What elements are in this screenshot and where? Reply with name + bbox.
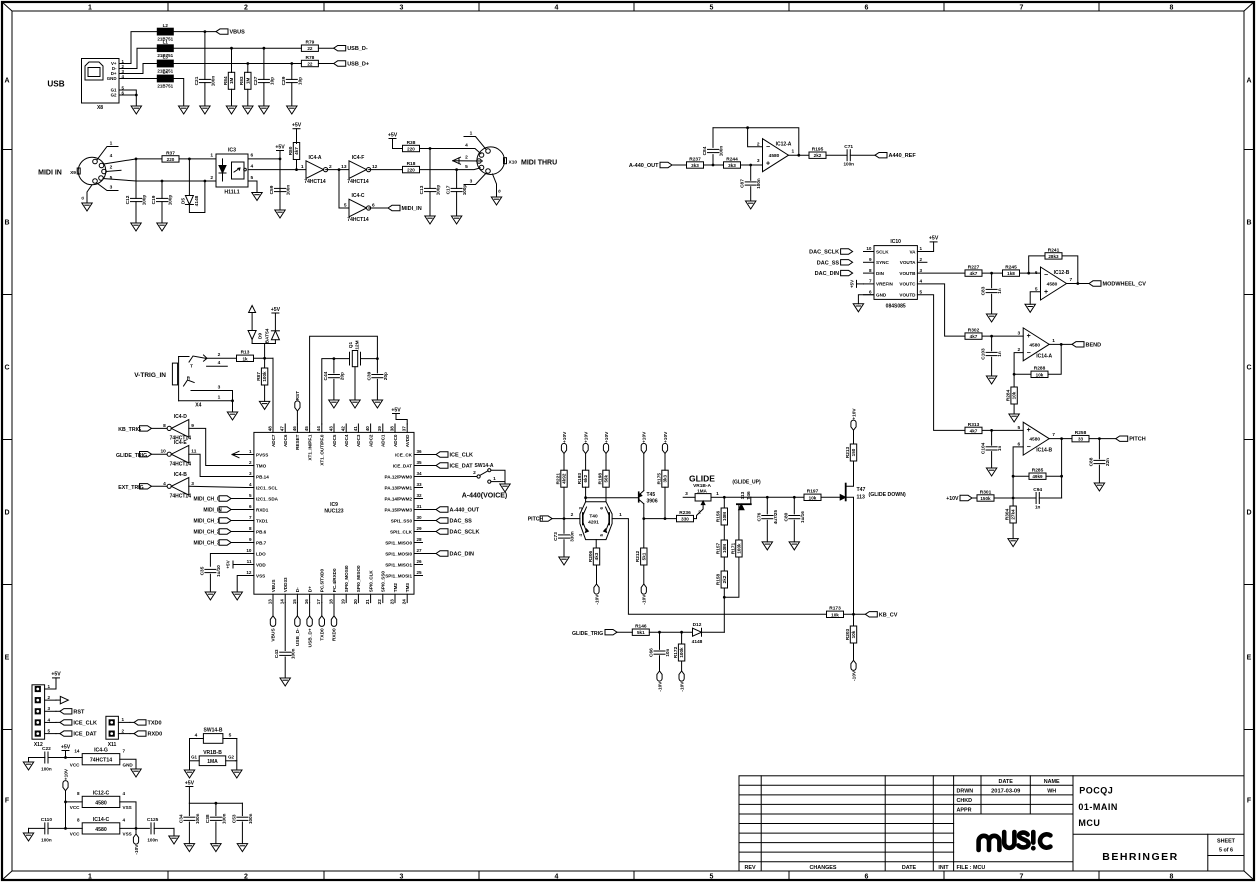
wire xyxy=(1060,439,1063,498)
resistor R304 xyxy=(1012,498,1014,506)
wire xyxy=(136,180,216,183)
svg-text:8: 8 xyxy=(77,818,80,823)
svg-text:BEHRINGER: BEHRINGER xyxy=(1102,851,1179,863)
svg-text:R221: R221 xyxy=(555,473,561,485)
svg-text:4580: 4580 xyxy=(95,801,107,807)
svg-text:D: D xyxy=(4,510,9,517)
svg-text:X9: X9 xyxy=(70,170,76,176)
svg-text:30: 30 xyxy=(417,515,423,520)
svg-text:PA.14/PWM2: PA.14/PWM2 xyxy=(385,496,413,501)
svg-text:5: 5 xyxy=(48,728,51,733)
ground xyxy=(853,304,863,312)
svg-text:T45: T45 xyxy=(647,492,656,498)
svg-text:5: 5 xyxy=(344,203,347,209)
wire xyxy=(826,154,847,156)
node A-440_OUT xyxy=(436,507,480,514)
wire xyxy=(173,79,183,107)
wire xyxy=(423,520,437,522)
svg-text:6: 6 xyxy=(249,504,252,509)
wire xyxy=(552,517,580,520)
wire xyxy=(231,509,245,511)
svg-text:SPI1_MISO0: SPI1_MISO0 xyxy=(385,540,412,545)
DAC IC10 084S085 xyxy=(864,239,923,309)
capacitor C35 xyxy=(199,565,221,577)
svg-text:+: + xyxy=(1027,333,1031,340)
node VBUS xyxy=(270,616,276,642)
svg-text:H11L1: H11L1 xyxy=(224,190,239,196)
ground xyxy=(500,484,510,492)
resistor R18 xyxy=(403,161,420,173)
svg-text:+: + xyxy=(1027,427,1031,434)
svg-text:ADC1: ADC1 xyxy=(381,434,386,447)
svg-text:1: 1 xyxy=(493,476,496,482)
+5V power xyxy=(292,123,302,129)
svg-text:100n: 100n xyxy=(843,162,854,167)
wire xyxy=(210,554,245,567)
svg-text:KB_CV: KB_CV xyxy=(879,612,898,618)
wire xyxy=(231,399,234,412)
svg-text:C59: C59 xyxy=(269,185,275,194)
svg-text:SPI1_CLK: SPI1_CLK xyxy=(390,529,413,534)
svg-text:−: − xyxy=(1027,444,1031,451)
svg-text:3: 3 xyxy=(1018,331,1021,337)
ground xyxy=(350,400,360,408)
ground xyxy=(986,468,996,476)
ground xyxy=(205,592,215,600)
svg-text:100k: 100k xyxy=(679,647,684,658)
capacitor C104 xyxy=(991,430,993,445)
node +10V xyxy=(946,495,972,502)
svg-text:5k1: 5k1 xyxy=(637,630,645,635)
svg-text:8: 8 xyxy=(869,268,872,273)
svg-text:2: 2 xyxy=(473,470,476,476)
node 01-MAIN title xyxy=(1078,802,1118,812)
capacitor C87 xyxy=(750,165,752,180)
wire xyxy=(644,517,677,520)
svg-text:36: 36 xyxy=(417,449,423,454)
svg-text:22n: 22n xyxy=(1105,458,1110,466)
svg-text:2: 2 xyxy=(210,175,213,181)
resistor R84 xyxy=(223,72,235,89)
svg-text:VBUS: VBUS xyxy=(271,579,276,592)
svg-text:SW14-A: SW14-A xyxy=(475,463,494,469)
wire xyxy=(821,496,846,498)
resistor R84 xyxy=(231,48,233,72)
svg-text:IC12-B: IC12-B xyxy=(1054,270,1070,276)
svg-text:C: C xyxy=(1246,365,1251,372)
svg-text:4580: 4580 xyxy=(769,153,780,159)
ground xyxy=(232,592,242,600)
svg-text:4k7: 4k7 xyxy=(970,334,978,339)
svg-text:PVSS: PVSS xyxy=(256,452,268,457)
svg-text:C34: C34 xyxy=(178,814,184,823)
wire xyxy=(396,414,407,425)
resistor R245 xyxy=(1003,265,1020,277)
node POCQJ title xyxy=(1079,786,1113,796)
svg-text:4: 4 xyxy=(920,279,923,284)
svg-text:6: 6 xyxy=(1035,270,1038,276)
svg-text:MIDI_CH_2: MIDI_CH_2 xyxy=(194,530,220,536)
capacitor C76 xyxy=(756,510,778,525)
svg-text:SYNC: SYNC xyxy=(876,260,889,265)
svg-text:4148: 4148 xyxy=(194,195,200,206)
MIDI IN connector X9 xyxy=(38,141,136,204)
svg-text:C13: C13 xyxy=(419,185,425,194)
ground xyxy=(243,106,253,114)
wire xyxy=(1029,256,1045,273)
capacitor C17 xyxy=(446,170,468,216)
resistor R285 xyxy=(1013,475,1029,477)
svg-text:100n: 100n xyxy=(195,813,200,824)
svg-text:113: 113 xyxy=(740,491,746,499)
svg-text:38: 38 xyxy=(389,426,394,432)
svg-text:C125: C125 xyxy=(147,817,159,823)
wire xyxy=(272,603,274,616)
svg-text:6: 6 xyxy=(251,153,254,159)
svg-text:100n: 100n xyxy=(221,813,226,824)
svg-text:VSS: VSS xyxy=(123,805,132,810)
+5V power xyxy=(61,744,71,750)
connector X11 xyxy=(106,716,130,748)
svg-text:-10V: -10V xyxy=(657,681,663,692)
svg-text:INIT: INIT xyxy=(938,865,949,871)
svg-text:ADC2: ADC2 xyxy=(368,434,373,447)
switch SW14-B xyxy=(190,727,237,743)
ground xyxy=(425,216,435,224)
svg-text:C12: C12 xyxy=(125,195,131,204)
node EXT_TRIG tag xyxy=(140,484,152,489)
svg-text:B: B xyxy=(1246,220,1251,227)
capacitor C73 xyxy=(563,519,565,534)
svg-text:27: 27 xyxy=(417,548,423,553)
wire xyxy=(642,504,645,548)
svg-text:3: 3 xyxy=(48,706,51,711)
svg-text:L3: L3 xyxy=(163,55,169,60)
svg-text:31: 31 xyxy=(417,504,423,509)
svg-text:2: 2 xyxy=(110,164,113,170)
svg-text:4201: 4201 xyxy=(588,520,599,526)
wire xyxy=(28,758,30,763)
svg-text:V-TRIG_IN: V-TRIG_IN xyxy=(134,372,166,379)
svg-text:6: 6 xyxy=(865,5,869,12)
capacitor C84 xyxy=(712,155,714,165)
node DAC_SCLK xyxy=(809,249,852,256)
wire xyxy=(612,519,826,615)
svg-text:2: 2 xyxy=(698,510,701,516)
capacitor C53 xyxy=(241,803,243,815)
svg-text:VOUTD: VOUTD xyxy=(899,293,916,298)
svg-text:8: 8 xyxy=(249,526,252,531)
wire xyxy=(152,453,168,455)
svg-text:KB_TRIG: KB_TRIG xyxy=(118,427,141,433)
resistor R193 xyxy=(577,470,589,487)
svg-text:330: 330 xyxy=(681,517,689,522)
svg-text:7: 7 xyxy=(1070,277,1073,283)
wire xyxy=(231,531,245,533)
svg-text:R156: R156 xyxy=(716,510,722,522)
resistor R212 xyxy=(635,548,647,565)
svg-text:74HCT14: 74HCT14 xyxy=(170,461,192,467)
svg-text:49k9: 49k9 xyxy=(1032,474,1043,479)
crystal Q1 12M xyxy=(334,340,378,400)
resistor R37 xyxy=(162,150,179,162)
capacitor C84 xyxy=(702,146,724,157)
wire xyxy=(917,242,933,252)
inductor L4 xyxy=(157,70,173,89)
ground xyxy=(1008,539,1018,547)
node USB_D- bottom xyxy=(296,603,298,616)
wire xyxy=(369,169,403,171)
node MIDI_CH_2 tag xyxy=(219,529,231,534)
svg-text:TM3: TM3 xyxy=(405,583,410,593)
svg-text:4k7: 4k7 xyxy=(970,271,978,276)
capacitor C103 xyxy=(981,348,1003,360)
svg-text:ICE_CLK: ICE_CLK xyxy=(450,453,474,459)
wire xyxy=(844,613,866,616)
svg-text:BEND: BEND xyxy=(1086,342,1102,348)
node USB_D- xyxy=(334,46,368,53)
op-amp IC14-A xyxy=(1018,328,1056,361)
-10V power xyxy=(594,584,600,605)
svg-text:GLIDE_TRIG: GLIDE_TRIG xyxy=(572,631,603,637)
svg-text:MIDI_IN: MIDI_IN xyxy=(402,206,422,212)
wire xyxy=(1067,282,1090,285)
resistor R258 xyxy=(1072,430,1089,442)
capacitor C29 xyxy=(281,64,303,107)
svg-text:−: − xyxy=(766,144,770,151)
svg-text:3: 3 xyxy=(218,384,221,390)
svg-text:5: 5 xyxy=(710,874,714,881)
svg-text:2: 2 xyxy=(218,352,221,358)
ground xyxy=(131,769,141,777)
svg-text:4580: 4580 xyxy=(1029,342,1040,348)
wire xyxy=(563,487,565,518)
node MIDI_CH_0 tag xyxy=(219,496,231,501)
svg-text:C44: C44 xyxy=(323,371,329,380)
svg-text:DAC_SCLK: DAC_SCLK xyxy=(809,250,839,256)
wire xyxy=(248,168,306,171)
svg-text:PA.12/PWM0: PA.12/PWM0 xyxy=(385,474,413,479)
capacitor C71 xyxy=(843,144,854,167)
svg-text:43: 43 xyxy=(328,426,333,432)
svg-text:R193: R193 xyxy=(577,473,583,485)
node ICE_CLK xyxy=(436,452,473,459)
svg-text:DAC_SCLK: DAC_SCLK xyxy=(450,530,480,536)
wire xyxy=(617,631,632,633)
wire xyxy=(741,164,763,167)
svg-text:USB_D-: USB_D- xyxy=(347,46,368,52)
wire xyxy=(917,284,965,336)
svg-text:R18: R18 xyxy=(407,161,416,167)
svg-text:A: A xyxy=(4,78,9,85)
svg-text:100n: 100n xyxy=(291,648,296,659)
capacitor C39 xyxy=(366,371,388,380)
svg-text:10M: 10M xyxy=(722,544,727,553)
ground xyxy=(237,844,247,852)
svg-text:3k3: 3k3 xyxy=(728,163,736,168)
svg-text:1: 1 xyxy=(249,449,252,454)
svg-text:RXD0: RXD0 xyxy=(148,732,163,738)
svg-text:+10V: +10V xyxy=(663,431,669,443)
svg-text:MIDI_CH_3: MIDI_CH_3 xyxy=(194,541,220,547)
+10V power xyxy=(63,768,69,791)
svg-text:14: 14 xyxy=(280,599,285,605)
node USB_D+ bottom xyxy=(309,603,311,616)
inductor L3 xyxy=(157,55,173,74)
wire xyxy=(28,828,30,833)
svg-text:4: 4 xyxy=(218,360,221,366)
USB connector X8 xyxy=(82,59,125,112)
svg-text:D-: D- xyxy=(295,587,300,592)
resistor R288 xyxy=(1031,366,1048,378)
pin 2 xyxy=(218,352,221,358)
svg-text:-10V: -10V xyxy=(594,594,600,605)
svg-text:−: − xyxy=(1044,272,1048,279)
svg-text:3: 3 xyxy=(400,874,404,881)
svg-text:R245: R245 xyxy=(1005,265,1017,271)
+5V power xyxy=(271,307,281,313)
svg-text:GLIDE: GLIDE xyxy=(689,474,715,484)
node USB_D+ xyxy=(334,61,369,68)
node PITCH input xyxy=(528,517,544,523)
svg-text:PITCH: PITCH xyxy=(1129,437,1146,443)
svg-text:084S085: 084S085 xyxy=(886,304,906,310)
wire xyxy=(272,358,274,424)
ground xyxy=(82,203,92,211)
svg-text:2: 2 xyxy=(465,155,468,161)
svg-text:SPI0_SS0: SPI0_SS0 xyxy=(381,571,386,593)
svg-text:R158: R158 xyxy=(716,573,722,585)
wire xyxy=(237,576,245,593)
svg-text:A-440_OUT: A-440_OUT xyxy=(629,163,659,169)
svg-text:R13: R13 xyxy=(241,350,250,356)
wire xyxy=(751,496,804,499)
svg-text:R241: R241 xyxy=(1048,247,1060,253)
ground xyxy=(372,400,382,408)
wire xyxy=(369,207,388,209)
svg-text:10n: 10n xyxy=(665,648,670,656)
wire xyxy=(233,564,245,566)
svg-text:113: 113 xyxy=(857,495,865,501)
svg-text:220: 220 xyxy=(167,157,175,162)
wire xyxy=(858,295,874,304)
svg-text:I2C1_SDA: I2C1_SDA xyxy=(256,496,279,501)
node DAC_SS xyxy=(817,260,853,267)
svg-text:R213: R213 xyxy=(845,446,851,458)
node X10 MIDI THRU label xyxy=(509,160,558,167)
svg-text:3: 3 xyxy=(400,5,404,12)
resistor R158 xyxy=(716,571,728,588)
capacitor C34 xyxy=(178,813,200,824)
wire xyxy=(135,828,137,834)
+5V power xyxy=(388,132,398,138)
svg-text:VDD: VDD xyxy=(256,562,266,567)
svg-text:Q1: Q1 xyxy=(348,341,354,348)
svg-text:R236: R236 xyxy=(679,510,691,516)
svg-text:100k: 100k xyxy=(737,543,742,554)
svg-text:DATE: DATE xyxy=(902,865,917,871)
wire xyxy=(64,801,82,804)
svg-text:RXD1: RXD1 xyxy=(256,507,269,512)
svg-text:1M: 1M xyxy=(229,77,234,84)
capacitor C73 xyxy=(553,531,575,542)
+5V power xyxy=(185,780,195,786)
node GLIDE_TRIG tag xyxy=(605,630,617,635)
svg-text:150: 150 xyxy=(851,448,856,456)
svg-text:10p: 10p xyxy=(297,77,302,85)
node GLIDE_UP label xyxy=(732,479,761,485)
wire xyxy=(189,454,246,476)
wire xyxy=(972,497,977,499)
capacitor C125 xyxy=(147,817,174,843)
svg-text:SPI0_MISO0: SPI0_MISO0 xyxy=(356,565,361,592)
wire xyxy=(393,148,403,150)
svg-text:74HCT14: 74HCT14 xyxy=(347,217,369,223)
svg-text:R304: R304 xyxy=(1005,508,1011,520)
svg-text:R146: R146 xyxy=(635,624,647,630)
svg-text:USB_D+: USB_D+ xyxy=(347,62,369,68)
wire xyxy=(1012,447,1024,500)
node SHEET label xyxy=(1217,838,1236,853)
resistor R236 xyxy=(677,510,694,522)
wire xyxy=(179,158,216,161)
wire xyxy=(643,454,645,491)
ground xyxy=(232,770,242,778)
svg-text:35: 35 xyxy=(417,460,423,465)
svg-text:+5V: +5V xyxy=(929,236,939,242)
capacitor C12 xyxy=(125,159,147,223)
svg-text:1: 1 xyxy=(470,131,473,137)
wire xyxy=(917,295,965,431)
node MIDI_CH_1 xyxy=(194,519,220,525)
svg-text:NAME: NAME xyxy=(1044,779,1060,785)
svg-text:3k3: 3k3 xyxy=(691,163,699,168)
svg-text:R227: R227 xyxy=(968,265,980,271)
svg-text:13: 13 xyxy=(341,164,347,170)
transistor T47 113 JFET glide down xyxy=(840,461,906,614)
svg-text:1: 1 xyxy=(110,141,113,147)
svg-text:C88: C88 xyxy=(1088,457,1094,466)
node RXD0 xyxy=(331,616,337,641)
svg-text:46: 46 xyxy=(292,426,297,432)
resistor R301 xyxy=(977,489,994,501)
resistor R213 xyxy=(845,444,857,461)
svg-text:100p: 100p xyxy=(168,195,173,206)
resistor R244 xyxy=(724,156,741,168)
ground xyxy=(131,223,141,231)
node MCU title xyxy=(1078,818,1100,828)
svg-text:4k92: 4k92 xyxy=(562,473,567,484)
svg-text:220: 220 xyxy=(407,168,415,173)
svg-text:10: 10 xyxy=(866,246,872,251)
svg-text:4k7: 4k7 xyxy=(294,147,299,155)
svg-text:CHKD: CHKD xyxy=(957,798,973,804)
node MIDI_CH_2 xyxy=(194,530,220,536)
svg-text:ICE_CK: ICE_CK xyxy=(395,452,413,457)
capacitor C66 xyxy=(649,648,671,657)
svg-text:G1: G1 xyxy=(191,755,197,760)
svg-text:C104: C104 xyxy=(981,442,987,454)
wire xyxy=(420,168,481,171)
wire xyxy=(423,531,437,533)
svg-text:DAC_DIN: DAC_DIN xyxy=(450,552,474,558)
svg-text:SPI1_MOSI1: SPI1_MOSI1 xyxy=(385,573,412,578)
node DAC_DIN xyxy=(436,551,474,558)
svg-text:74HCT14: 74HCT14 xyxy=(90,758,112,764)
svg-text:20p: 20p xyxy=(339,372,344,380)
wire xyxy=(1049,343,1072,346)
svg-text:R258: R258 xyxy=(1075,430,1087,436)
